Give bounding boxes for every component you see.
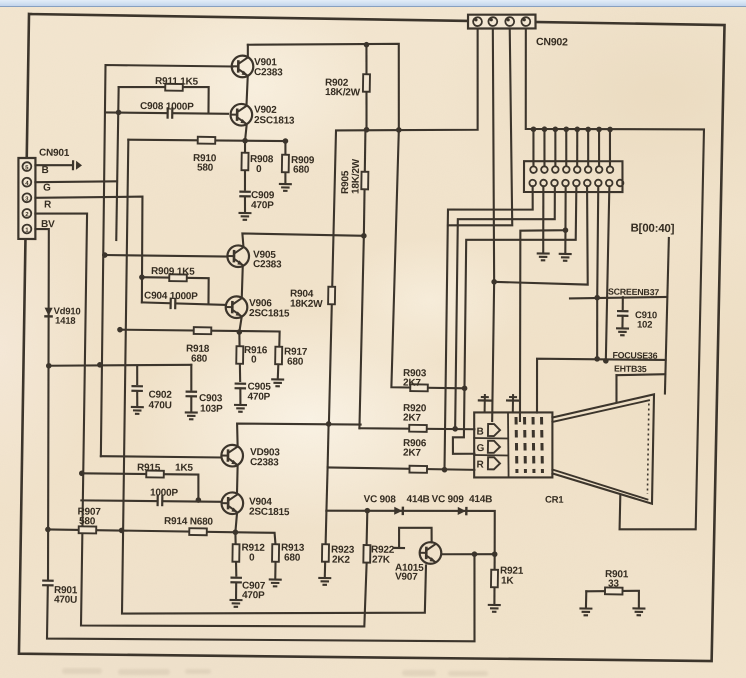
wire socket riser 5 <box>577 129 578 166</box>
junction V902 emitter <box>242 138 248 144</box>
svg-text:C2383: C2383 <box>254 67 283 78</box>
CRT screen dotted line <box>647 403 648 493</box>
ground R901 left <box>579 608 592 615</box>
connector CN901 pin 4 circle <box>22 178 31 187</box>
wire screen line <box>570 295 667 300</box>
resistor R902 18K/2W <box>363 74 370 92</box>
wire R915 line <box>81 473 198 500</box>
ground C907 <box>229 600 242 607</box>
svg-text:2K7: 2K7 <box>403 448 422 459</box>
svg-text:18K/2W: 18K/2W <box>325 87 361 99</box>
wire V901-V902 link <box>246 76 247 105</box>
capacitor C905 470P <box>234 384 248 389</box>
ground R923 <box>318 578 331 585</box>
wire B stub <box>35 165 71 166</box>
rail junction 8 <box>607 127 613 133</box>
wire R901-33 left <box>585 591 587 607</box>
svg-text:2SC1813: 2SC1813 <box>254 115 295 127</box>
resistor R922 27K <box>363 545 370 563</box>
transistor V906 <box>226 296 248 318</box>
resistor R923 2K2 <box>322 544 329 562</box>
wire R909-1K5 top of box <box>141 277 208 303</box>
wire V906 emitter <box>239 317 241 332</box>
junction R904 bottom <box>326 421 332 427</box>
socket bottom pin 2 <box>540 180 547 187</box>
gun grid dashed line 1 <box>515 417 518 473</box>
wire VB vertical (box left) <box>116 87 118 240</box>
wire bpin7 to screen <box>597 186 599 297</box>
wire screen to focus <box>596 298 598 359</box>
connector CN902 pin 4 key <box>523 18 526 21</box>
wire R921 column <box>494 554 495 603</box>
junction V904 emitter <box>233 529 239 535</box>
svg-text:VC 908: VC 908 <box>363 494 396 506</box>
svg-text:C908 1000P: C908 1000P <box>140 101 194 113</box>
socket top pin 5 <box>574 166 581 173</box>
svg-text:680: 680 <box>284 552 301 563</box>
ground C902 <box>131 407 144 414</box>
gun grid dashed line 2 <box>524 417 527 473</box>
svg-text:2SC1815: 2SC1815 <box>249 308 290 320</box>
ground R917 <box>271 379 284 386</box>
wire V902 emitter <box>245 125 247 141</box>
svg-text:C2383: C2383 <box>253 259 282 270</box>
wire R923 column <box>325 511 327 577</box>
capacitor R901 470U <box>41 581 55 586</box>
svg-text:R: R <box>476 459 484 470</box>
transistor V901 <box>232 55 254 77</box>
svg-text:18K/2W: 18K/2W <box>351 158 363 194</box>
wire C903 hang <box>190 365 193 390</box>
socket bottom pin 5 <box>573 180 580 187</box>
wire R906 line to R gun <box>328 467 475 469</box>
wire G row <box>35 180 117 183</box>
svg-text:470P: 470P <box>251 200 274 211</box>
svg-text:1K: 1K <box>501 575 515 586</box>
wire VD903 base line <box>101 456 222 458</box>
wire C908 bottom of box to V902 base <box>105 112 228 114</box>
wire R908 column <box>244 141 245 190</box>
socket bottom pin 3 <box>551 180 558 187</box>
wire R909 column <box>285 141 286 183</box>
wire R913 ground leg <box>274 562 276 578</box>
wire socket riser 8 <box>609 129 610 166</box>
resistor R901 33 <box>605 587 623 594</box>
wire socket riser 2 <box>544 129 545 166</box>
diode Vd910 <box>44 308 53 317</box>
svg-text:103P: 103P <box>200 404 223 415</box>
CRT funnel inner top <box>552 399 649 424</box>
wire socket riser 6 <box>588 129 589 166</box>
wire R902 column <box>365 45 368 130</box>
ground R909 <box>279 184 292 191</box>
diode VC909 <box>458 507 467 516</box>
wire BV row and Vd910 column <box>30 229 54 580</box>
wire CN902 pin2 to gun <box>487 28 499 421</box>
svg-text:1K5: 1K5 <box>175 463 194 474</box>
wire R row and descender <box>34 195 144 302</box>
resistor R903 2K7 <box>410 384 428 391</box>
wire jog down to R906 line <box>327 424 330 467</box>
gun cell divider 1 <box>474 437 508 440</box>
socket bottom pin 4 <box>562 180 569 187</box>
junction stage2 box left <box>139 274 145 280</box>
svg-text:C2383: C2383 <box>250 457 279 468</box>
gun cathode arrow 1 <box>488 424 500 436</box>
wire R920 line to B gun <box>359 427 474 430</box>
junction VC rail <box>119 528 125 534</box>
ground R913 <box>269 579 282 586</box>
resistor R911 1K5 <box>165 84 183 91</box>
transistor V905 <box>227 245 249 267</box>
wire C910 hang <box>622 297 624 309</box>
wire R912 column <box>235 532 237 575</box>
connector CN902 pin 4 circle <box>521 17 530 26</box>
wire socket riser 3 <box>555 129 556 166</box>
svg-text:B: B <box>476 426 483 437</box>
svg-text:CN902: CN902 <box>536 36 568 49</box>
socket top pin 2 <box>541 166 548 173</box>
svg-text:2K2: 2K2 <box>332 555 351 566</box>
socket bottom pin 7 <box>595 180 602 187</box>
svg-text:680: 680 <box>287 356 304 367</box>
svg-text:470P: 470P <box>247 391 270 402</box>
wire V905 base line <box>105 255 228 257</box>
junction R909 top <box>283 138 289 144</box>
wire C904 line to V906 base <box>142 302 226 305</box>
wire V907 top loop <box>399 527 432 547</box>
wire V905 collector line <box>242 233 364 248</box>
wire V905-V906 link <box>242 266 243 298</box>
junction R906 right <box>442 467 448 473</box>
rail junction 1 <box>531 126 537 132</box>
wire V901 collector to top rail <box>247 45 250 58</box>
capacitor C903 103P <box>185 392 199 397</box>
wire VD903-V904 link <box>236 465 239 494</box>
wire R922 column <box>366 511 369 544</box>
wire bpin4 ground leg <box>564 230 567 252</box>
gun cell right edge <box>507 413 510 477</box>
connector CN901 pin 1 circle <box>22 225 31 234</box>
wire C905 to ground <box>239 388 242 403</box>
junction rail corner <box>396 127 402 133</box>
svg-text:470P: 470P <box>242 590 265 601</box>
resistor R918 680 <box>194 327 212 334</box>
transistor V904 <box>221 492 243 514</box>
svg-text:R908: R908 <box>250 154 274 165</box>
junction pin2 dot <box>491 279 497 285</box>
capacitor C910 102 <box>616 311 630 316</box>
svg-text:CR1: CR1 <box>545 494 564 505</box>
wire V904 emitter <box>235 514 237 533</box>
wire CN902 pin4 to rail, right side loop <box>518 29 706 531</box>
wire R901-33 body line <box>586 590 639 607</box>
resistor R908 0 <box>241 153 248 171</box>
capacitor C904 <box>171 297 176 311</box>
transistor V907 A1015 <box>420 542 442 564</box>
svg-text:2K7: 2K7 <box>403 413 422 424</box>
wire R911 top of box <box>118 86 209 113</box>
resistor R909 680 <box>282 155 289 173</box>
gun cell divider 2 <box>474 454 508 457</box>
wire V907 emitter line <box>441 553 494 555</box>
wire R905 column <box>364 130 366 236</box>
svg-text:580: 580 <box>197 162 214 173</box>
rail junction 4 <box>563 126 569 132</box>
junction bpin8 focus <box>603 358 609 364</box>
wire rail C to V907 emitter <box>47 547 476 645</box>
wire C910 ground leg <box>621 316 623 327</box>
socket bottom pin 1 <box>529 180 536 187</box>
resistor R920 2K7 <box>409 425 427 432</box>
wire C902 hang <box>136 366 139 385</box>
svg-text:VC 909: VC 909 <box>431 494 464 506</box>
ground R921 <box>488 605 501 612</box>
gun cathode arrow 2 <box>488 441 500 453</box>
svg-text:414B: 414B <box>406 494 429 505</box>
resistor R921 1K <box>491 570 498 588</box>
transistor V902 <box>230 104 252 126</box>
resistor R910 580 <box>198 137 216 144</box>
wire bpin1 to R906 column <box>444 185 533 471</box>
junction R903 right <box>462 385 468 391</box>
wire C902 ground leg <box>136 391 139 406</box>
svg-text:CN901: CN901 <box>39 147 70 158</box>
junction V907 em rail C <box>472 551 478 557</box>
wire VA vertical with V901 base feed <box>99 65 233 459</box>
svg-text:SCREENB37: SCREENB37 <box>608 287 659 298</box>
ground C905 <box>234 405 247 412</box>
connector CN901 pin 5 circle <box>22 162 31 171</box>
wire EHT underline <box>616 373 665 375</box>
resistor R914 N680 <box>189 528 207 535</box>
ground socket bpin4 <box>559 254 572 261</box>
svg-text:0: 0 <box>251 355 257 366</box>
svg-text:R: R <box>44 199 52 210</box>
connector CN902 pin 3 circle <box>505 17 514 26</box>
ground C903 <box>185 412 198 419</box>
junction V905 collector node <box>361 233 367 239</box>
terminator on B stub <box>73 160 82 170</box>
gun electrode tick 1 <box>478 394 492 413</box>
wire C907 ground leg <box>235 583 237 599</box>
wire 130 line and R904 column <box>329 26 479 426</box>
socket bottom pin 8 <box>606 180 613 187</box>
wire bpin8 to focus line <box>606 186 610 360</box>
resistor R904 18K2W <box>328 287 335 305</box>
resistor R912 0 <box>232 544 239 562</box>
CRT funnel inner bottom <box>552 469 648 499</box>
transistor VD903 <box>221 445 243 467</box>
svg-text:R914 N680: R914 N680 <box>164 516 214 528</box>
svg-text:414B: 414B <box>469 494 492 505</box>
wire bpin5 to R903 column, G-row jog <box>453 184 577 455</box>
socket top pin 8 <box>607 166 614 173</box>
ground R901 right <box>632 608 645 615</box>
wire top rail <box>247 41 401 129</box>
connector CN901 pin 3 circle <box>22 193 31 202</box>
wire V902 emitter line <box>128 139 285 143</box>
svg-text:2SC1815: 2SC1815 <box>249 507 290 519</box>
wire VD903 collector <box>237 423 361 449</box>
wire socket riser 4 <box>566 129 567 166</box>
wire C903 ground leg <box>190 396 193 411</box>
wire u3 column and R903 line <box>391 130 468 389</box>
svg-text:470U: 470U <box>148 400 171 411</box>
ground C910 <box>616 328 629 335</box>
wire socket riser 1 <box>533 129 534 166</box>
wire bpin2 ground <box>542 186 544 252</box>
wire VC908/909 line <box>326 508 496 554</box>
svg-text:2K7: 2K7 <box>403 378 422 389</box>
wire focus line to gun <box>536 358 665 415</box>
connector CN901 pin 2 circle <box>22 209 31 218</box>
CRT gun box <box>473 411 553 479</box>
wire R917 to ground <box>277 364 280 378</box>
junction R902 bottom <box>364 127 370 133</box>
capacitor C902 470U <box>130 386 144 391</box>
wire EHT drop to funnel <box>615 375 618 401</box>
CRT funnel outline <box>551 393 654 504</box>
wire jog to VC908 line <box>326 467 327 510</box>
diode VC908 <box>394 506 403 515</box>
capacitor C908 <box>168 106 173 120</box>
connector CN902 pin 3 key <box>507 18 510 21</box>
junction VA-C902 line <box>97 362 103 368</box>
svg-text:R909 1K5: R909 1K5 <box>151 266 195 278</box>
socket bottom pin 9 <box>617 180 624 187</box>
rail junction 2 <box>542 126 548 132</box>
junction screen <box>594 295 600 301</box>
resistor R907 580 <box>79 526 97 533</box>
gun electrode tick 2 <box>506 394 520 413</box>
svg-text:0: 0 <box>256 164 262 175</box>
gun grid dashed line 3 <box>532 417 535 473</box>
junction R902 top <box>364 42 370 48</box>
junction focus <box>594 356 600 362</box>
junction R920 right <box>452 426 458 432</box>
wire R916 column <box>239 332 241 381</box>
wire u2 down to R920 line <box>359 236 363 428</box>
wire bpin4 to G1 <box>517 186 566 422</box>
ground C909 <box>238 213 251 220</box>
wire C909 to ground <box>244 197 247 212</box>
socket top pin 7 <box>596 166 603 173</box>
svg-text:18K2W: 18K2W <box>290 299 323 311</box>
svg-text:680: 680 <box>293 164 310 175</box>
gun grid dashed line 4 <box>541 417 544 473</box>
junction V904 base node <box>196 497 202 503</box>
connector CN902 body <box>468 14 536 30</box>
wire B0040 vertical <box>665 238 669 394</box>
svg-text:1418: 1418 <box>55 316 76 327</box>
socket bottom pin 6 <box>584 180 591 187</box>
wire CN902 pin3 <box>448 28 515 227</box>
wire VC vertical, rail A, V907 base <box>121 140 433 619</box>
connector CN902 pin 2 key <box>490 18 493 21</box>
wire 1000P line to V904 base <box>81 500 221 503</box>
rail junction 6 <box>585 127 591 133</box>
resistor R916 0 <box>236 346 243 364</box>
junction R907 left <box>45 527 51 533</box>
socket top pin 6 <box>585 166 592 173</box>
svg-text:33: 33 <box>608 578 620 589</box>
connector CN901 body <box>17 158 36 239</box>
wire socket riser 7 <box>598 129 599 166</box>
socket top pin 3 <box>552 166 559 173</box>
capacitor C909 470P <box>238 192 252 197</box>
rail junction 5 <box>574 126 580 132</box>
CRT socket body <box>524 160 623 194</box>
resistor R913 680 <box>272 544 279 562</box>
svg-text:B: B <box>41 165 48 176</box>
socket top pin 1 <box>530 166 537 173</box>
junction R922 top <box>364 508 370 514</box>
resistor R917 680 <box>275 347 282 365</box>
gun cathode arrow 3 <box>488 457 500 469</box>
junction V906 emitter <box>236 329 242 335</box>
svg-text:0: 0 <box>249 553 255 564</box>
wire V904 emitter line <box>48 529 276 544</box>
svg-text:R911 1K5: R911 1K5 <box>155 76 199 88</box>
resistor R909 1K5 <box>169 274 187 281</box>
wire V906 emitter line <box>120 329 280 346</box>
svg-text:V907: V907 <box>395 572 418 583</box>
svg-text:27K: 27K <box>372 554 391 565</box>
connector CN902 pin 2 circle <box>488 17 497 26</box>
junction V905 base <box>102 252 108 258</box>
resistor R906 2K7 <box>409 466 427 473</box>
resistor R905 18K/2W <box>361 172 368 190</box>
junction R915 left <box>79 470 85 476</box>
junction bpin4 <box>563 227 569 233</box>
wire bpin6 to pin2 node <box>494 185 589 285</box>
bar under V907 loop <box>393 547 405 549</box>
ground socket bpin2 <box>537 253 550 260</box>
svg-text:G: G <box>476 443 484 454</box>
wire C902 C903 line <box>49 363 192 368</box>
svg-text:1000P: 1000P <box>150 487 179 498</box>
svg-text:C904 1000P: C904 1000P <box>144 291 198 303</box>
svg-text:580: 580 <box>79 516 96 527</box>
svg-text:EHTB35: EHTB35 <box>614 364 647 375</box>
svg-text:G: G <box>43 183 51 194</box>
rail junction 7 <box>596 127 602 133</box>
svg-text:B[00:40]: B[00:40] <box>630 222 674 235</box>
capacitor 1000P <box>158 494 163 508</box>
junction BV-C902 line <box>46 363 52 369</box>
resistor R915 1K5 <box>146 470 164 477</box>
rail junction 3 <box>553 126 559 132</box>
svg-text:R915: R915 <box>137 462 161 473</box>
svg-text:470U: 470U <box>54 594 77 605</box>
junction V907 em R921 <box>492 551 498 557</box>
connector CN902 pin 1 key <box>474 18 477 21</box>
connector CN902 pin 1 circle <box>473 17 482 26</box>
junction box left <box>116 110 122 116</box>
svg-text:680: 680 <box>191 353 208 364</box>
junction R918 left <box>117 327 123 333</box>
capacitor C907 470P <box>229 578 243 583</box>
wire bpin3 to R920 column <box>455 185 556 431</box>
svg-text:102: 102 <box>637 319 652 330</box>
wire pin2 row, rail B <box>29 213 372 630</box>
socket top pin 4 <box>563 166 570 173</box>
